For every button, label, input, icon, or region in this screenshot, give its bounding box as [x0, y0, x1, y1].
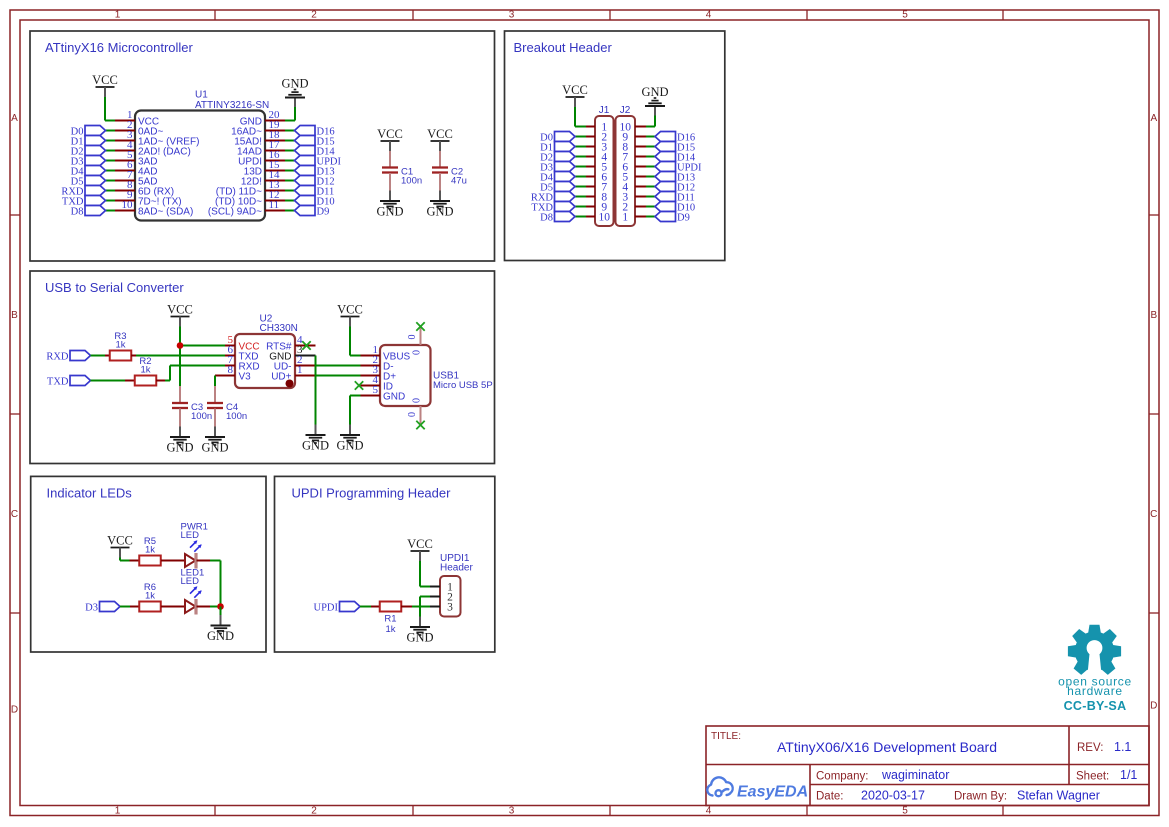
- svg-text:B: B: [11, 310, 18, 321]
- ruler ticks right: [1149, 214, 1159, 216]
- U1 pin 15: [265, 170, 285, 172]
- connector J1: [595, 116, 614, 226]
- svg-text:100n: 100n: [191, 411, 212, 422]
- ground GND (UPDI section): [419, 617, 421, 627]
- net flag TXD (USB section): [70, 376, 91, 386]
- section box Breakout Header: [505, 31, 725, 261]
- svg-text:(SCL) 9AD~: (SCL) 9AD~: [208, 206, 262, 217]
- no-connect X on USB1 shield top: [416, 322, 424, 330]
- svg-text:D: D: [11, 705, 18, 716]
- svg-text:USB to Serial Converter: USB to Serial Converter: [45, 280, 184, 295]
- net flag D13 (U1 right): [285, 170, 295, 172]
- capacitor C3 100n: [179, 386, 181, 403]
- svg-text:J2: J2: [620, 105, 631, 116]
- EasyEDA logo: [707, 777, 732, 796]
- USB1 pin 3: [361, 375, 381, 377]
- U1 pin 1: [115, 120, 135, 122]
- U2 pin 5: [225, 345, 235, 347]
- no-connect X on USB1 ID: [355, 381, 363, 389]
- svg-text:VCC: VCC: [427, 127, 453, 141]
- U1 pin 11: [265, 210, 285, 212]
- USB1 pin 2: [361, 365, 381, 367]
- wire VCC to R5: [119, 558, 121, 561]
- svg-text:GND: GND: [201, 441, 228, 455]
- svg-text:GND: GND: [336, 439, 363, 453]
- wire U2 UD- to USB1 D-: [316, 365, 361, 367]
- U1 pin 19: [265, 130, 285, 132]
- net flag D15 (U1 right): [285, 140, 295, 142]
- wire UPDI to R1: [360, 606, 371, 608]
- USB1 pin 1: [361, 355, 381, 357]
- svg-text:1k: 1k: [385, 624, 395, 635]
- svg-text:VCC: VCC: [337, 303, 363, 317]
- net flag D16 (breakout right): [646, 136, 655, 138]
- net flag UPDI (UPDI section): [340, 602, 361, 612]
- svg-text:10: 10: [599, 211, 611, 223]
- svg-text:Drawn By:: Drawn By:: [954, 791, 1007, 803]
- wire GND to J2 pin 10: [654, 116, 656, 127]
- J2 pin 4: [635, 186, 646, 188]
- J1 pin 5: [586, 166, 595, 168]
- svg-text:LED: LED: [181, 576, 200, 587]
- wire LED1 to GND: [197, 606, 211, 608]
- svg-text:UPDI: UPDI: [313, 603, 338, 614]
- LED PWR1: [185, 554, 196, 567]
- svg-text:1k: 1k: [140, 365, 150, 376]
- svg-text:1/1: 1/1: [1120, 768, 1137, 782]
- svg-text:1: 1: [297, 364, 303, 376]
- ruler ticks left: [10, 214, 20, 216]
- junction VCC/C3: [177, 342, 184, 349]
- svg-text:10: 10: [122, 199, 134, 211]
- wire D3 to R6: [120, 606, 130, 608]
- connector J2: [616, 116, 636, 226]
- section box USB to Serial Converter: [30, 271, 495, 464]
- wire VCC to UPDI1 pin 1: [419, 561, 421, 587]
- ground GND (C2): [439, 191, 441, 201]
- svg-text:Sheet:: Sheet:: [1076, 771, 1109, 783]
- svg-text:0: 0: [412, 350, 423, 355]
- wire RXD to R3: [91, 355, 106, 357]
- svg-text:D: D: [1150, 701, 1157, 712]
- svg-text:VCC: VCC: [407, 537, 433, 551]
- U1 pin 3: [115, 140, 135, 142]
- resistor R1 1k: [380, 602, 402, 612]
- resistor R3 1k: [110, 351, 132, 361]
- J2 pin 7: [635, 156, 646, 158]
- svg-text:1: 1: [622, 211, 628, 223]
- net flag D2 (breakout left): [575, 156, 586, 158]
- svg-text:VCC: VCC: [107, 534, 133, 548]
- U1 pin 20: [265, 120, 285, 122]
- J2 pin 9: [635, 136, 646, 138]
- U1 pin 7: [115, 180, 135, 182]
- J2 pin 3: [635, 196, 646, 198]
- svg-text:5: 5: [373, 384, 379, 396]
- svg-text:100n: 100n: [401, 176, 422, 187]
- U2 pin 4: [295, 345, 316, 347]
- svg-text:3: 3: [509, 806, 515, 817]
- svg-text:2: 2: [311, 10, 317, 21]
- svg-text:UPDI Programming Header: UPDI Programming Header: [292, 486, 452, 501]
- svg-text:VCC: VCC: [377, 127, 403, 141]
- wire R6 to LED1: [161, 606, 185, 608]
- USB1 pin 4: [361, 385, 381, 387]
- svg-text:GND: GND: [383, 391, 405, 402]
- U2 pin 1 dot: [286, 380, 294, 388]
- svg-text:D9: D9: [317, 207, 330, 218]
- svg-text:1: 1: [115, 806, 121, 817]
- svg-text:8AD~ (SDA): 8AD~ (SDA): [138, 206, 193, 217]
- J1 pin 6: [586, 176, 595, 178]
- J1 pin 8: [586, 196, 595, 198]
- svg-text:B: B: [1150, 310, 1157, 321]
- svg-text:J1: J1: [599, 105, 610, 116]
- ground GND (C1): [389, 191, 391, 201]
- connector USB1 Micro USB 5P: [380, 345, 431, 406]
- svg-text:GND: GND: [641, 85, 668, 99]
- J1 pin 9: [586, 206, 595, 208]
- net flag D1 (breakout left): [575, 146, 586, 148]
- net flag RXD (U1 left): [106, 190, 116, 192]
- net flag D15 (breakout right): [646, 146, 655, 148]
- ruler ticks top: [214, 10, 216, 20]
- wire VCC to J1 pin 1: [574, 107, 576, 127]
- U1 pin 9: [115, 200, 135, 202]
- J1 pin 1: [586, 126, 595, 128]
- J2 pin 6: [635, 166, 646, 168]
- LED LED1: [185, 600, 196, 613]
- U1 pin 17: [265, 150, 285, 152]
- J1 pin 4: [586, 156, 595, 158]
- wire U2 UD+ to USB1 D+: [316, 375, 361, 377]
- svg-text:LED: LED: [181, 530, 200, 541]
- ground GND (USB1): [349, 425, 351, 435]
- svg-text:Indicator LEDs: Indicator LEDs: [47, 486, 133, 501]
- svg-text:2: 2: [311, 806, 317, 817]
- svg-text:ATtinyX06/X16 Development Boar: ATtinyX06/X16 Development Board: [777, 739, 997, 755]
- svg-text:CH330N: CH330N: [260, 323, 298, 334]
- ground GND (C4): [214, 427, 216, 437]
- svg-text:4: 4: [706, 806, 712, 817]
- net flag D1 (U1 left): [106, 140, 116, 142]
- ground GND (breakout): [654, 107, 656, 116]
- net flag RXD (breakout left): [575, 196, 586, 198]
- U1 pin 12: [265, 200, 285, 202]
- resistor R5 1k: [139, 556, 161, 566]
- svg-text:3: 3: [509, 10, 515, 21]
- wire U2 GND down: [315, 356, 317, 425]
- svg-text:1: 1: [115, 10, 121, 21]
- svg-text:Header: Header: [440, 563, 473, 574]
- op-amp U2 body CH330N: [235, 334, 295, 388]
- U1 pin 18: [265, 140, 285, 142]
- ground GND (U1): [294, 98, 296, 107]
- wire UPDI1 pin 2 to GND: [420, 596, 430, 598]
- svg-text:EasyEDA: EasyEDA: [737, 784, 808, 801]
- net flag D12 (breakout right): [646, 186, 655, 188]
- svg-text:D9: D9: [677, 213, 690, 224]
- svg-text:wagiminator: wagiminator: [881, 768, 949, 782]
- svg-text:3: 3: [447, 601, 453, 613]
- svg-text:Micro USB 5P: Micro USB 5P: [433, 380, 493, 391]
- net flag UPDI (U1 right): [285, 160, 295, 162]
- junction LED GND rail: [217, 603, 224, 610]
- svg-text:TXD: TXD: [47, 377, 69, 388]
- svg-text:0: 0: [407, 412, 418, 417]
- svg-text:GND: GND: [166, 441, 193, 455]
- net flag D4 (U1 left): [106, 170, 116, 172]
- USB1 shield pin bottom: [420, 406, 422, 424]
- wire R1 to UPDI1 pin 3: [401, 606, 412, 608]
- net flag D11 (breakout right): [646, 196, 655, 198]
- resistor R6 1k: [139, 602, 161, 612]
- U2 pin 2: [295, 365, 316, 367]
- svg-text:GND: GND: [207, 629, 234, 643]
- svg-text:1k: 1k: [115, 340, 125, 351]
- U1 pin 8: [115, 190, 135, 192]
- J2 pin 10: [635, 126, 646, 128]
- J2 pin 8: [635, 146, 646, 148]
- net flag D13 (breakout right): [646, 176, 655, 178]
- net flag D10 (U1 right): [285, 200, 295, 202]
- svg-text:REV:: REV:: [1077, 742, 1103, 754]
- U1 pin 16: [265, 160, 285, 162]
- net flag D9 (breakout right): [646, 216, 655, 218]
- svg-text:Date:: Date:: [816, 791, 844, 803]
- wire R2 to U2 pin 7: [156, 380, 165, 382]
- no-connect X on U2 RTS#: [302, 341, 310, 349]
- svg-text:Stefan Wagner: Stefan Wagner: [1017, 789, 1100, 803]
- svg-text:GND: GND: [302, 439, 329, 453]
- J1 pin 7: [586, 186, 595, 188]
- svg-text:0: 0: [407, 335, 418, 340]
- J1 pin 3: [586, 146, 595, 148]
- connector UPDI1 Header: [440, 576, 461, 617]
- svg-text:CC-BY-SA: CC-BY-SA: [1064, 699, 1127, 713]
- svg-text:100n: 100n: [226, 411, 247, 422]
- svg-text:0: 0: [412, 398, 423, 403]
- net flag D0 (breakout left): [575, 136, 586, 138]
- capacitor C4 100n: [214, 386, 216, 403]
- svg-text:A: A: [1150, 113, 1157, 124]
- U2 pin 1: [295, 375, 316, 377]
- net flag D4 (breakout left): [575, 176, 586, 178]
- wire PWR1 to GND rail: [197, 560, 211, 562]
- net flag D3 (U1 left): [106, 160, 116, 162]
- J1 pin 10: [586, 216, 595, 218]
- ruler ticks bottom: [214, 806, 216, 816]
- svg-text:TITLE:: TITLE:: [711, 731, 741, 742]
- USB1 shield pin top: [420, 328, 422, 346]
- wire USB1 GND down: [350, 395, 361, 397]
- svg-text:V3: V3: [239, 371, 252, 382]
- net flag D11 (U1 right): [285, 190, 295, 192]
- U2 pin 6: [225, 355, 235, 357]
- wire V3 to C4: [215, 375, 225, 377]
- svg-text:C: C: [1150, 509, 1157, 520]
- svg-text:5: 5: [902, 10, 908, 21]
- net flag D5 (breakout left): [575, 186, 586, 188]
- wire VCC to USB1 VBUS: [349, 327, 351, 356]
- svg-text:D8: D8: [540, 213, 553, 224]
- net flag D8 (U1 left): [106, 210, 116, 212]
- svg-text:C: C: [11, 509, 18, 520]
- net flag D3 (LED section): [100, 602, 121, 612]
- op-amp U1 body ATTINY3216-SN: [135, 111, 265, 221]
- svg-text:U1: U1: [195, 90, 208, 101]
- net flag D5 (U1 left): [106, 180, 116, 182]
- svg-text:D8: D8: [71, 207, 84, 218]
- wire GND to U1 pin 20: [294, 107, 296, 121]
- J2 pin 1: [635, 216, 646, 218]
- svg-text:GND: GND: [406, 631, 433, 645]
- section box ATtinyX16 Microcontroller: [30, 31, 495, 261]
- svg-text:1.1: 1.1: [1114, 740, 1131, 754]
- svg-text:D3: D3: [85, 603, 98, 614]
- svg-text:GND: GND: [376, 205, 403, 219]
- svg-text:ATtinyX16 Microcontroller: ATtinyX16 Microcontroller: [45, 40, 194, 55]
- net flag D3 (breakout left): [575, 166, 586, 168]
- capacitor C1 100n: [389, 151, 391, 167]
- title block outline: [706, 726, 1149, 806]
- wire VCC to U2 pin 5 and C3: [179, 327, 181, 346]
- svg-text:8: 8: [228, 364, 234, 376]
- wire R5 to PWR1: [161, 560, 185, 562]
- svg-text:Breakout Header: Breakout Header: [514, 40, 613, 55]
- svg-text:A: A: [11, 113, 18, 124]
- svg-text:2020-03-17: 2020-03-17: [861, 789, 925, 803]
- net flag D16 (U1 right): [285, 130, 295, 132]
- UPDI1 pin 2: [430, 596, 440, 598]
- open source hardware logo: [1068, 625, 1121, 675]
- U1 pin 13: [265, 190, 285, 192]
- svg-text:VCC: VCC: [92, 73, 118, 87]
- wire VCC to U1 pin 1: [104, 97, 106, 121]
- ground GND (C3): [179, 427, 181, 437]
- net flag D2 (U1 left): [106, 150, 116, 152]
- svg-text:47u: 47u: [451, 176, 467, 187]
- svg-text:VCC: VCC: [167, 303, 193, 317]
- no-connect X on USB1 shield bottom: [416, 421, 424, 429]
- J2 pin 2: [635, 206, 646, 208]
- wire R3 to U2 pin 6: [131, 355, 136, 357]
- ground GND (U2 pin 3): [315, 425, 317, 435]
- svg-text:1k: 1k: [145, 545, 155, 556]
- net flag RXD (USB section): [70, 351, 91, 361]
- ground GND (LED section): [220, 615, 222, 625]
- net flag D14 (U1 right): [285, 150, 295, 152]
- net flag D0 (U1 left): [106, 130, 116, 132]
- svg-text:ATTINY3216-SN: ATTINY3216-SN: [195, 100, 269, 111]
- U2 pin 3: [295, 355, 316, 357]
- svg-text:hardware: hardware: [1067, 684, 1123, 698]
- U1 pin 6: [115, 170, 135, 172]
- section box Indicator LEDs: [31, 476, 266, 652]
- U1 pin 4: [115, 150, 135, 152]
- svg-text:GND: GND: [426, 205, 453, 219]
- U1 pin 5: [115, 160, 135, 162]
- svg-text:RXD: RXD: [46, 352, 69, 363]
- net flag D10 (breakout right): [646, 206, 655, 208]
- resistor R2 1k: [135, 376, 157, 386]
- svg-text:R1: R1: [384, 614, 396, 625]
- svg-text:1k: 1k: [145, 591, 155, 602]
- J2 pin 5: [635, 176, 646, 178]
- section box UPDI Programming Header: [275, 476, 495, 652]
- svg-text:11: 11: [269, 199, 280, 211]
- net flag D14 (breakout right): [646, 156, 655, 158]
- capacitor C2 47u: [439, 151, 441, 167]
- U2 pin 8: [225, 375, 235, 377]
- U1 pin 2: [115, 130, 135, 132]
- USB1 pin 5: [361, 395, 381, 397]
- wire TXD to R2: [91, 380, 126, 382]
- svg-text:GND: GND: [281, 77, 308, 91]
- svg-text:VCC: VCC: [562, 83, 588, 97]
- svg-text:5: 5: [902, 806, 908, 817]
- J1 pin 2: [586, 136, 595, 138]
- svg-text:Company:: Company:: [816, 771, 868, 783]
- net flag TXD (U1 left): [106, 200, 116, 202]
- net flag D8 (breakout left): [575, 216, 586, 218]
- net flag D12 (U1 right): [285, 180, 295, 182]
- net flag D9 (U1 right): [285, 210, 295, 212]
- U2 pin 7: [225, 365, 235, 367]
- U1 pin 14: [265, 180, 285, 182]
- svg-text:4: 4: [706, 10, 712, 21]
- net flag TXD (breakout left): [575, 206, 586, 208]
- net flag UPDI (breakout right): [646, 166, 655, 168]
- UPDI1 pin 1: [430, 586, 440, 588]
- U1 pin 10: [115, 210, 135, 212]
- UPDI1 pin 3: [430, 606, 440, 608]
